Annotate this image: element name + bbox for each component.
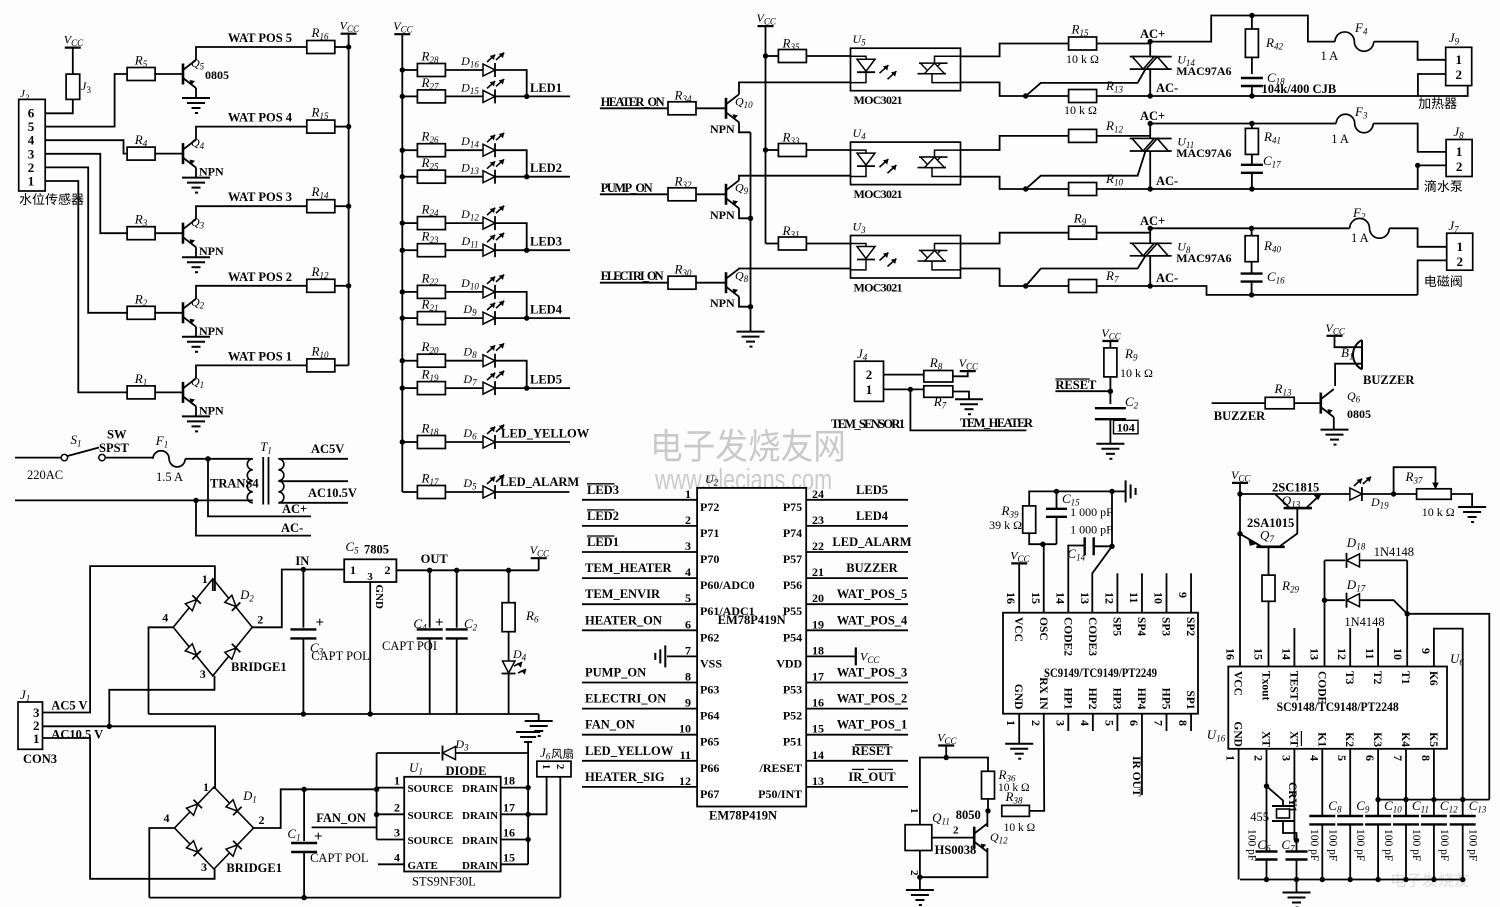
diode D3 xyxy=(443,747,456,760)
svg-text:P71: P71 xyxy=(700,526,719,540)
resistor R20 xyxy=(417,354,445,367)
wire Q12 emitter xyxy=(920,848,988,877)
LED D8 xyxy=(483,355,495,367)
svg-text:HP4: HP4 xyxy=(1135,688,1147,710)
svg-text:12: 12 xyxy=(1335,648,1349,660)
svg-text:P74: P74 xyxy=(783,526,802,540)
svg-text:CRY1: CRY1 xyxy=(1286,782,1298,813)
ground (C2) xyxy=(1096,444,1124,459)
wire Vcc node xyxy=(945,746,947,758)
junction xyxy=(400,289,405,294)
wire U1 drain bus xyxy=(527,753,529,864)
transistor Q8 xyxy=(726,269,739,297)
connector J2 xyxy=(19,99,46,191)
junction xyxy=(1148,226,1153,231)
svg-text:11: 11 xyxy=(1127,592,1141,603)
svg-text:4: 4 xyxy=(685,565,691,579)
junction xyxy=(400,385,405,390)
svg-text:AC+: AC+ xyxy=(1140,27,1165,41)
svg-text:+: + xyxy=(314,829,323,845)
wire C16 to return xyxy=(1251,282,1253,295)
wire triac MT2 xyxy=(1149,42,1151,57)
junction xyxy=(1264,877,1269,882)
wire cap ground rail xyxy=(1240,879,1461,881)
capacitor C12 xyxy=(1433,749,1435,816)
wire pin11 stub xyxy=(1377,628,1379,667)
svg-text:2: 2 xyxy=(1456,159,1463,174)
svg-text:17: 17 xyxy=(812,670,824,684)
svg-text:DRAIN: DRAIN xyxy=(462,860,498,872)
svg-text:VCC: VCC xyxy=(1232,671,1244,696)
junction xyxy=(1320,877,1325,882)
wire C14 node to gnd line xyxy=(1111,491,1113,546)
svg-text:GND: GND xyxy=(373,585,385,610)
wire J2 pin1 to R1 xyxy=(45,181,128,392)
svg-text:2: 2 xyxy=(866,367,873,382)
svg-text:7: 7 xyxy=(685,643,691,657)
ground (Q5 emitter) xyxy=(182,98,210,113)
ground (rotated) xyxy=(1126,480,1136,502)
wire VDD to Vcc xyxy=(806,655,856,657)
svg-text:0805: 0805 xyxy=(1347,407,1371,421)
transistor Q1 xyxy=(183,378,196,406)
junction xyxy=(301,895,306,900)
wire bridge2 pin4 xyxy=(149,828,174,898)
svg-text:1 000 pF: 1 000 pF xyxy=(1070,505,1113,519)
wire gate of U8 xyxy=(1026,256,1146,286)
wire R42 to C18 xyxy=(1251,57,1253,74)
svg-text:SP3: SP3 xyxy=(1160,617,1172,636)
wire rail to R35 xyxy=(766,55,779,57)
wire gate of U14 xyxy=(1026,69,1146,96)
svg-text:2: 2 xyxy=(1029,720,1043,726)
svg-text:6: 6 xyxy=(1127,720,1141,726)
wire LED1 xyxy=(495,95,570,97)
resistor R15 xyxy=(1069,37,1097,50)
svg-text:CAPT POL: CAPT POL xyxy=(311,649,369,663)
resistor R42 xyxy=(1245,29,1258,57)
svg-text:CAPT POI: CAPT POI xyxy=(382,639,437,653)
svg-text:CAPT POL: CAPT POL xyxy=(310,851,368,865)
svg-text:P66: P66 xyxy=(700,761,719,775)
resistor R3 xyxy=(127,227,155,240)
wire rail to R25 xyxy=(402,176,417,178)
svg-text:P75: P75 xyxy=(783,500,802,514)
wire R37 to ground xyxy=(1451,494,1472,507)
LED D11 xyxy=(483,244,495,256)
svg-text:1 000 pF: 1 000 pF xyxy=(1070,523,1113,537)
wire AC10.5V xyxy=(278,502,348,504)
svg-text:4: 4 xyxy=(1078,720,1092,726)
wire net LED2 xyxy=(582,525,697,527)
wire R35 to U5 pin1 xyxy=(806,55,850,57)
junction xyxy=(1109,544,1114,549)
wire R17 to D5 xyxy=(446,491,483,493)
wire pin3 /XT xyxy=(1293,749,1295,841)
LED D19 xyxy=(1350,488,1362,500)
svg-text:NPN: NPN xyxy=(710,122,735,136)
svg-text:LED_YELLOW: LED_YELLOW xyxy=(501,427,590,441)
capacitor C11 xyxy=(1393,815,1419,817)
resistor R1 xyxy=(127,386,155,399)
resistor R35 xyxy=(778,50,806,63)
wire R36 to node xyxy=(987,799,989,811)
wire pin 5 stub xyxy=(1116,714,1118,731)
wire F3 to J8 pin1 xyxy=(1373,124,1446,152)
svg-text:16: 16 xyxy=(1004,592,1018,604)
svg-text:MOC3021: MOC3021 xyxy=(854,281,903,295)
wire triac MT1 xyxy=(1149,151,1151,189)
transistor Q13 2SC1815 (rotated) xyxy=(1284,507,1312,510)
wire R19 to D7 xyxy=(446,387,483,389)
junction xyxy=(1237,531,1242,536)
diode D18 xyxy=(1347,554,1360,567)
junction xyxy=(985,808,990,813)
svg-text:21: 21 xyxy=(812,565,824,579)
capacitor C1 (CAPT POL) xyxy=(303,789,305,841)
wire pin1 GND xyxy=(1018,714,1020,744)
wire R1 to Q1 base xyxy=(154,391,183,393)
svg-text:/RESET: /RESET xyxy=(759,761,803,775)
LED D9 xyxy=(483,312,495,324)
resistor R9 (reset) xyxy=(1104,348,1117,377)
resistor R33 xyxy=(778,144,806,157)
svg-text:2: 2 xyxy=(259,813,265,827)
junction xyxy=(944,755,949,760)
svg-text:10: 10 xyxy=(1391,648,1405,660)
transistor Q10 xyxy=(726,94,739,122)
wire AC+ to snubber top xyxy=(1150,16,1335,42)
svg-text:3: 3 xyxy=(394,826,400,840)
capacitor C10 xyxy=(1365,815,1391,817)
junction xyxy=(524,174,529,179)
LED D7 xyxy=(483,382,495,394)
svg-text:T1: T1 xyxy=(1399,671,1411,685)
capacitor C16 xyxy=(1241,272,1263,274)
svg-text:100 pF: 100 pF xyxy=(1438,829,1450,861)
svg-text:0805: 0805 xyxy=(205,68,229,82)
svg-text:18: 18 xyxy=(812,643,824,657)
wire rail to R31 xyxy=(766,243,779,245)
wire opto to R12 xyxy=(961,136,1069,150)
junction xyxy=(1415,163,1420,168)
wire rail to R22 xyxy=(402,291,417,293)
wire rail to R20 xyxy=(402,360,417,362)
wire R20 to D8 xyxy=(446,360,483,362)
wire D17 diagonal xyxy=(1360,600,1407,614)
svg-text:AC-: AC- xyxy=(281,521,303,535)
wire bridge1 pin4 to gnd rail xyxy=(149,627,174,714)
svg-text:DRAIN: DRAIN xyxy=(462,810,498,822)
svg-text:1 A: 1 A xyxy=(1321,49,1339,63)
wire Q2 collector to WAT_POS_2 xyxy=(196,286,307,299)
power Vcc xyxy=(65,46,81,48)
junction xyxy=(1148,121,1153,126)
svg-text:1: 1 xyxy=(1004,720,1018,726)
svg-text:LED3: LED3 xyxy=(587,483,619,497)
svg-text:CODE3: CODE3 xyxy=(1086,617,1098,656)
svg-text:1N4148: 1N4148 xyxy=(1344,615,1384,629)
wire D14 out xyxy=(495,150,527,177)
svg-text:AC-: AC- xyxy=(1156,174,1178,188)
wire R14 to Vcc rail xyxy=(335,205,349,207)
resistor R23 xyxy=(417,244,445,257)
capacitor C10 xyxy=(1377,749,1379,816)
svg-text:STS9NF30L: STS9NF30L xyxy=(412,875,476,889)
wire R15 to Vcc rail xyxy=(335,126,349,128)
wire AC- tap xyxy=(196,500,311,535)
svg-text:14: 14 xyxy=(1279,648,1293,660)
fuse F3 xyxy=(1336,114,1373,133)
junction xyxy=(1249,13,1254,18)
wire net LED_YELLOW xyxy=(582,760,697,762)
wire opto to R13 node xyxy=(961,82,1026,96)
junction xyxy=(400,248,405,253)
wire J2 pin2 to R2 xyxy=(45,167,128,312)
wire net LED1 xyxy=(582,551,697,553)
svg-text:XT: XT xyxy=(1260,731,1272,747)
ground (main) xyxy=(525,721,553,736)
svg-text:VCC: VCC xyxy=(1012,617,1024,642)
junction xyxy=(1148,186,1153,191)
svg-text:TEM_HEATER: TEM_HEATER xyxy=(585,561,673,575)
svg-text:2: 2 xyxy=(908,870,920,876)
wire AC+ (valve) xyxy=(1150,227,1350,229)
wire HS0038 out to Q12 base xyxy=(932,837,974,839)
svg-text:EM78P419N: EM78P419N xyxy=(709,809,777,823)
capacitor C9 xyxy=(1337,815,1363,817)
svg-text:LED_YELLOW: LED_YELLOW xyxy=(585,744,674,758)
junction xyxy=(1294,877,1299,882)
junction xyxy=(301,567,306,572)
wire Q2 emitter xyxy=(195,327,197,337)
wire Vcc opto rail xyxy=(765,26,767,243)
svg-text:P56: P56 xyxy=(783,578,802,592)
wire R42 top xyxy=(1251,16,1253,30)
wire net LED5 xyxy=(806,499,908,501)
wire D16 out xyxy=(495,70,527,96)
svg-text:NPN: NPN xyxy=(710,296,735,310)
junction xyxy=(524,315,529,320)
svg-text:1 A: 1 A xyxy=(1331,132,1349,146)
wire pin17 to J6 xyxy=(528,777,547,815)
junction xyxy=(1348,877,1353,882)
wire opto to R9 xyxy=(961,233,1069,244)
resistor R13 xyxy=(1069,90,1097,103)
wire J2 pin5 to R5 xyxy=(45,74,128,127)
power Vcc (VDD) xyxy=(855,647,857,665)
svg-text:HP5: HP5 xyxy=(1160,688,1172,710)
svg-text:WAT POS 4: WAT POS 4 xyxy=(228,111,293,125)
junction xyxy=(400,94,405,99)
wire Q8 collector xyxy=(739,268,851,270)
svg-text:14: 14 xyxy=(812,748,824,762)
svg-text:LED3: LED3 xyxy=(530,235,562,249)
wire Vcc to HS0038 xyxy=(920,758,988,825)
junction xyxy=(346,44,351,49)
junction xyxy=(1375,877,1380,882)
junction xyxy=(400,358,405,363)
svg-text:P64: P64 xyxy=(700,709,719,723)
wire emitter rail xyxy=(750,132,752,331)
svg-text:SOURCE: SOURCE xyxy=(408,810,454,822)
resistor R18 xyxy=(417,436,445,449)
svg-text:HP3: HP3 xyxy=(1110,688,1122,710)
wire J1 pin2 AC10.5V xyxy=(43,726,216,789)
opto-coupler U4 MOC3021 xyxy=(851,142,961,185)
power Vcc xyxy=(394,33,410,35)
wire Q1 emitter xyxy=(195,406,197,416)
svg-text:LED1: LED1 xyxy=(530,81,562,95)
wire R10 row xyxy=(1026,188,1069,190)
transistor Q6 xyxy=(1321,389,1334,417)
svg-text:SP4: SP4 xyxy=(1135,617,1147,636)
capacitor C7 xyxy=(1286,850,1308,852)
wire C14 right xyxy=(1094,545,1112,547)
resistor R24 xyxy=(417,217,445,230)
svg-text:VSS: VSS xyxy=(700,656,722,670)
wire D18 to node xyxy=(1360,559,1407,561)
svg-text:7: 7 xyxy=(1152,720,1166,726)
wire HEATER_ON xyxy=(600,107,668,109)
wire triac MT2 xyxy=(1149,124,1151,139)
wire R16 to Vcc rail xyxy=(335,46,349,48)
svg-text:IR OUT: IR OUT xyxy=(1130,756,1142,797)
wire R25 to D13 xyxy=(446,176,483,178)
svg-text:2: 2 xyxy=(1456,254,1463,269)
wire pin 7 stub xyxy=(1166,714,1168,731)
wire R13 to AC- xyxy=(1097,95,1150,97)
svg-text:GND: GND xyxy=(1232,721,1244,747)
svg-text:IN: IN xyxy=(295,554,309,568)
svg-text:OUT: OUT xyxy=(421,552,449,566)
resistor R10 xyxy=(307,359,335,372)
wire net HEATER_ON xyxy=(582,629,697,631)
wire pin2 RX IN xyxy=(1029,714,1044,811)
resistor R39 xyxy=(1023,506,1036,533)
LED D10 xyxy=(483,286,495,298)
svg-text:DRAIN: DRAIN xyxy=(462,783,498,795)
wire F1 to T1 xyxy=(185,458,253,460)
wire rail to R27 xyxy=(402,95,417,97)
wire net PUMP_ON xyxy=(582,682,697,684)
wire Vcc to B1 xyxy=(1335,336,1363,347)
junction xyxy=(525,785,530,790)
junction xyxy=(193,498,198,503)
junction xyxy=(205,456,210,461)
triac U11 MAC97A6 xyxy=(1130,138,1172,140)
svg-text:MOC3021: MOC3021 xyxy=(854,93,903,107)
svg-text:WAT POS 3: WAT POS 3 xyxy=(228,190,292,204)
svg-text:100 pF: 100 pF xyxy=(1354,829,1366,861)
svg-text:1: 1 xyxy=(202,572,208,586)
ground (Q1 emitter) xyxy=(182,416,210,431)
svg-text:100 pF: 100 pF xyxy=(1326,829,1338,861)
resistor R22 xyxy=(417,285,445,298)
wire pin 8 stub xyxy=(1190,714,1192,731)
wire D12 out xyxy=(495,223,527,250)
svg-text:22: 22 xyxy=(812,539,824,553)
junction xyxy=(374,787,379,792)
transistor Q4 xyxy=(183,140,196,168)
wire Vcc rail xyxy=(1239,483,1241,667)
bridge rectifier D1 BRIDGE1 xyxy=(175,787,254,869)
wire K6 loop xyxy=(1434,629,1463,816)
wire R9b to node xyxy=(1109,377,1111,391)
opto-coupler U5 MOC3021 xyxy=(851,48,961,90)
buzzer B1 xyxy=(1353,340,1362,369)
svg-text:3: 3 xyxy=(200,667,206,681)
svg-text:HEATER_ON: HEATER_ON xyxy=(585,613,662,627)
wire gate of U11 xyxy=(1026,151,1146,189)
resistor R21 xyxy=(417,312,445,325)
resistor R2 xyxy=(127,306,155,319)
svg-text:AC10.5 V: AC10.5 V xyxy=(51,728,103,742)
wire crystal to /XT xyxy=(1283,821,1297,840)
wire Vcc to J3 xyxy=(72,48,74,75)
svg-text:BRIDGE1: BRIDGE1 xyxy=(231,660,287,674)
resistor R26 xyxy=(417,144,445,157)
junction xyxy=(1403,797,1408,802)
diode D17 xyxy=(1347,594,1360,607)
wire rail to R19 xyxy=(402,387,417,389)
svg-text:1 A: 1 A xyxy=(1351,231,1369,245)
wire pin14 stub xyxy=(1293,628,1295,667)
fuse F2 xyxy=(1350,218,1390,238)
junction xyxy=(1237,491,1242,496)
fuse F1 xyxy=(153,451,185,467)
svg-text:+: + xyxy=(435,615,444,631)
junction xyxy=(1460,797,1465,802)
wire bridge1 pin3 to AC10.5V xyxy=(109,676,214,727)
wire Q5 emitter xyxy=(195,88,197,98)
junction xyxy=(107,724,112,729)
svg-text:1: 1 xyxy=(866,382,873,397)
svg-text:Txout: Txout xyxy=(1260,671,1272,701)
svg-text:PUMP_ON: PUMP_ON xyxy=(601,181,653,195)
wire to ground xyxy=(1112,490,1126,492)
wire net WAT_POS_1 xyxy=(806,734,908,736)
wire Vcc to pin16 xyxy=(1018,563,1020,612)
wire R41 to C17 xyxy=(1251,154,1253,164)
svg-text:WAT POS 5: WAT POS 5 xyxy=(228,31,292,45)
resistor R4 xyxy=(127,147,155,160)
svg-text:5: 5 xyxy=(1102,720,1116,726)
junction xyxy=(1249,226,1254,231)
connector J1 CON3 xyxy=(18,702,43,749)
svg-text:1: 1 xyxy=(1456,144,1463,159)
wire LED4 xyxy=(495,317,570,319)
wire R9 to triac xyxy=(1097,232,1150,234)
svg-text:100 pF: 100 pF xyxy=(1467,829,1479,861)
svg-text:PUMP_ON: PUMP_ON xyxy=(585,666,646,680)
wire 7805 GND xyxy=(369,582,371,714)
svg-text:SW: SW xyxy=(107,428,127,442)
wire net HEATER_SIG xyxy=(582,786,697,788)
svg-text:ELECTRI_ON: ELECTRI_ON xyxy=(601,269,664,283)
wire Q9 collector xyxy=(739,176,851,181)
junction xyxy=(748,304,753,309)
svg-text:K1: K1 xyxy=(1315,732,1327,747)
svg-text:16: 16 xyxy=(503,826,515,840)
capacitor C6 xyxy=(1256,850,1278,852)
capacitor C11 xyxy=(1405,749,1407,816)
MOSFET U1 STS9NF30L xyxy=(404,777,501,872)
junction xyxy=(301,787,306,792)
label 加热器 xyxy=(1418,97,1456,109)
wire PUMP_ON xyxy=(600,193,668,195)
wire R18 to D6 xyxy=(446,441,483,443)
